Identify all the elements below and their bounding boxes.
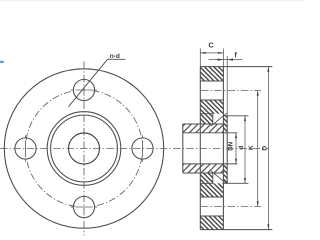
bolt hole bottom — [73, 196, 94, 217]
svg-text:C: C — [208, 41, 214, 50]
dimension C arrow right — [218, 52, 223, 54]
hatch flange top band — [200, 67, 223, 81]
raised face bottom edge + d extension — [223, 182, 248, 184]
bolt hole right — [132, 138, 153, 159]
bolt circle centerline bottom + K extension — [201, 206, 261, 208]
top window border — [0, 0, 304, 2]
dimension f line — [209, 59, 243, 61]
dimension C arrow left — [200, 52, 205, 54]
raised face inner ring — [51, 115, 118, 182]
bore bottom edge + DN extension — [183, 163, 238, 165]
horizontal centerline (shared with section) — [0, 148, 268, 150]
bolt circle crossing at left hole — [25, 135, 27, 161]
disk top edge + D extension — [200, 66, 272, 68]
svg-text:n-d: n-d — [110, 53, 120, 60]
dimension f extension (raised face edge) — [226, 56, 228, 116]
dimension DN line — [235, 133, 237, 164]
dimension C extension right — [222, 49, 224, 67]
dimension d arrows — [244, 116, 246, 121]
dimension f arrow left — [218, 59, 224, 61]
disk left face — [199, 67, 201, 230]
bolt circle crossing at bottom hole — [71, 206, 97, 208]
bolt hole top band upper line — [200, 80, 223, 82]
bolt hole left — [15, 138, 36, 159]
pipe outer bottom — [183, 172, 224, 174]
svg-text:DN: DN — [228, 141, 235, 150]
hatch raised face strip (bottom) — [223, 164, 227, 183]
bolt hole top — [73, 79, 94, 100]
weld step vertical top — [212, 114, 214, 124]
weld counterbore edge bottom — [200, 182, 213, 184]
hatch flange upper-mid band — [200, 100, 223, 114]
raised face edge — [226, 116, 228, 184]
dimension D arrows — [267, 67, 269, 72]
bolt hole top band lower line — [200, 99, 223, 101]
pipe outer top — [183, 123, 224, 125]
dimension f arrow right — [227, 59, 233, 61]
svg-text:D: D — [262, 146, 269, 151]
leader line n-d — [68, 59, 107, 107]
hatch flange left of weld step (top) — [200, 114, 213, 124]
weld diagonal bottom — [211, 171, 227, 184]
vertical centerline — [83, 62, 85, 236]
bolt circle crossing at right hole — [142, 135, 144, 161]
hatch flange lower-mid band — [200, 183, 223, 197]
bolt circle crossing at top hole — [71, 89, 97, 91]
hatch flange bottom band — [200, 216, 223, 230]
svg-text:d: d — [238, 146, 245, 150]
dimension K arrows — [257, 91, 259, 96]
pipe left end face — [182, 124, 184, 173]
dimension C extension left — [199, 49, 201, 67]
hatch flange left of weld step (bottom) — [200, 173, 213, 183]
weld diagonal top — [211, 113, 227, 126]
bore top edge + DN extension — [183, 132, 238, 134]
dimension C line — [200, 52, 223, 54]
disk bottom edge + D extension — [200, 229, 272, 231]
bolt hole bottom band upper line — [200, 196, 223, 198]
hatch pipe wall top — [183, 124, 224, 133]
svg-text:f: f — [234, 50, 237, 59]
raised face top edge + d extension — [223, 115, 248, 117]
dimension d line — [244, 116, 246, 184]
bore circle — [69, 133, 100, 164]
hatch raised face strip (top) — [223, 116, 227, 133]
bolt circle centerline top + K extension — [201, 90, 261, 92]
leader shelf — [108, 58, 126, 60]
dimension K line — [257, 91, 259, 207]
weld counterbore edge top — [200, 113, 213, 115]
bolt hole bottom band lower line — [200, 215, 223, 217]
dimension DN arrows — [235, 133, 237, 138]
blue cursor mark — [0, 61, 4, 63]
svg-text:K: K — [248, 145, 255, 150]
disk right face — [222, 67, 224, 230]
dimension D line — [267, 67, 269, 230]
hatch pipe wall bottom — [183, 164, 224, 173]
raised face outer ring — [47, 112, 121, 186]
outer circle — [4, 69, 163, 228]
weld step vertical bottom — [212, 173, 214, 183]
bolt circle (dash-dot) — [26, 91, 142, 207]
